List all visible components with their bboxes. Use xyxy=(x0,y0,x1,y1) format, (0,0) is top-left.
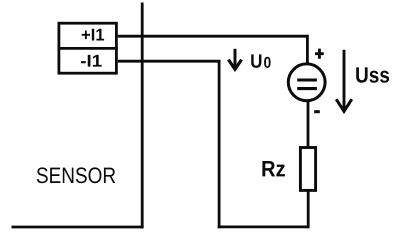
terminal block xyxy=(59,23,117,73)
pin label +I1 xyxy=(82,29,104,41)
wire -I1 vertical drop xyxy=(218,60,221,229)
terminal divider xyxy=(58,47,118,50)
wire Rz bottom xyxy=(307,191,310,229)
label U0 xyxy=(251,54,261,68)
voltage source U circle xyxy=(288,64,325,101)
wire bottom return xyxy=(218,225,309,228)
wire +I1 to voltage source xyxy=(118,36,308,65)
wire -I1 horizontal xyxy=(118,60,218,63)
label SENSOR xyxy=(37,167,115,183)
label Rz xyxy=(262,161,285,176)
arrow U0 xyxy=(234,49,237,66)
resistor Rz xyxy=(300,148,315,191)
sensor boundary bottom line xyxy=(12,226,144,229)
voltage source symbol bars xyxy=(297,78,317,81)
pin label -I1 xyxy=(81,55,102,67)
polarity minus xyxy=(314,110,320,113)
sensor boundary vertical line xyxy=(141,3,144,229)
label Uss xyxy=(356,67,389,82)
polarity plus xyxy=(315,49,324,59)
wire source to Rz xyxy=(307,101,310,148)
arrow Uss xyxy=(343,50,346,109)
